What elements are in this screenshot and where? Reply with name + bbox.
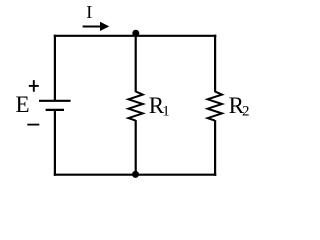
current arrow [83,22,110,31]
node top junction [132,30,139,37]
svg-text:R2: R2 [229,93,250,119]
resistor R2 [208,91,222,120]
wire left lower (E bottom lead) [54,110,56,176]
svg-text:I: I [86,2,92,22]
wire left upper (E top lead) [54,35,56,101]
wire right upper (R2 top lead) [214,35,216,92]
wire right lower (R2 bottom lead) [214,120,216,176]
svg-text:E: E [16,92,30,117]
wire bottom [54,174,217,176]
wire R1 top lead [135,33,137,92]
wire R1 bottom lead [135,120,137,176]
label minus (battery negative) [27,124,39,126]
label + (battery positive) [29,80,39,92]
resistor R1 [128,91,142,120]
svg-text:R1: R1 [149,93,170,119]
battery E positive plate [39,100,71,102]
wire top [54,35,217,37]
node bottom junction [132,171,139,178]
battery E negative plate [46,109,64,111]
